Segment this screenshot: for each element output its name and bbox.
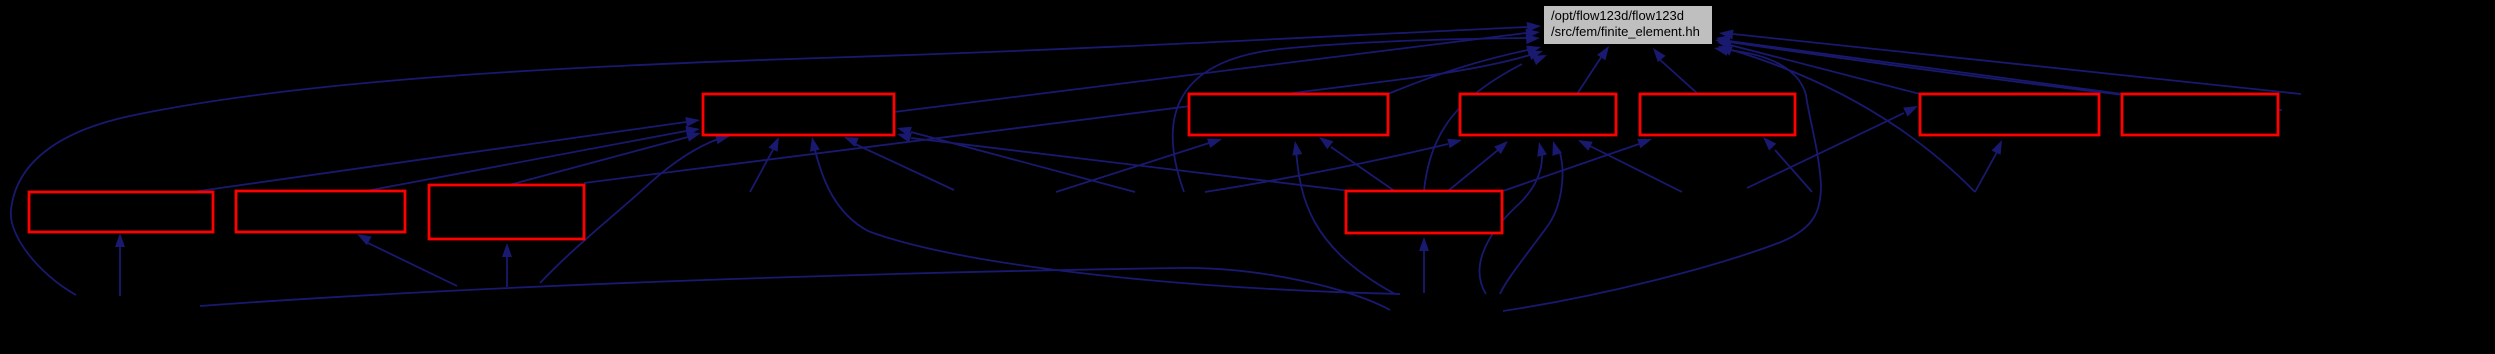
edge I to A <box>509 132 701 185</box>
svg-text:/opt/flow123d/flow123d: /opt/flow123d/flow123d <box>1551 8 1684 23</box>
edge hub3 curve to A <box>540 134 730 283</box>
edge bottomnode to C inner <box>1480 142 1548 294</box>
edge J to finite_element.hh <box>1424 55 1547 191</box>
edge B to finite_element.hh <box>1388 46 1541 94</box>
node B <box>1189 94 1388 135</box>
node fe_system.hh (A) <box>703 94 894 135</box>
edge J to C <box>1448 141 1508 191</box>
edge r3a to A <box>750 137 779 192</box>
edge J to A <box>897 133 1350 191</box>
node finite_element.hh (root) <box>1544 6 1712 44</box>
edge G to A <box>192 117 700 192</box>
edge bottom long line <box>200 268 1390 310</box>
edge node mid to finite_element.hh (s-curve) <box>1173 34 1540 192</box>
edge H to A <box>366 126 700 191</box>
edge r4 to E <box>1975 140 2002 192</box>
edge hidden box2 to finite_element.hh (over F) <box>1719 30 2301 95</box>
edge r3h to D <box>1763 137 1812 192</box>
edge I to finite_element.hh <box>584 51 1543 184</box>
node J <box>1346 191 1502 233</box>
node H <box>236 191 405 232</box>
edge C to finite_element.hh <box>1577 46 1609 94</box>
edge hub4 to J <box>1419 237 1429 293</box>
edge hub4 to A (long bottom curve) <box>810 137 1400 294</box>
node D <box>1640 94 1795 135</box>
node E <box>1920 94 2099 135</box>
edge hub3 to H <box>357 234 457 286</box>
edge r3j to E left edge <box>1747 106 1918 188</box>
edge r3d to B <box>1056 139 1222 193</box>
edge hidden box2 to finite_element.hh (behind F) <box>1715 37 2282 110</box>
edge D to finite_element.hh <box>1653 48 1698 94</box>
edge E to finite_element.hh <box>1717 40 1920 94</box>
edge hub4 to finite_element.hh (big swoosh around D) <box>1503 46 1821 311</box>
edge node r4 to finite_element.hh <box>1718 46 1975 192</box>
edge bottomnode to C outer <box>1500 141 1563 294</box>
edge J to B <box>1319 137 1396 192</box>
edge hub1 to finite_element.hh (left big arc) <box>11 22 1541 295</box>
edge hub2 to G <box>115 233 125 296</box>
node G <box>29 192 213 232</box>
edge J to D <box>1500 139 1652 192</box>
edge r3b to A <box>844 137 954 190</box>
edge F to finite_element.hh <box>1716 35 2122 94</box>
edge hub3b to I <box>502 243 512 287</box>
node F <box>2122 94 2278 135</box>
edge hub4 to B <box>1292 141 1395 294</box>
node C <box>1460 94 1616 135</box>
node I (two-line) <box>429 185 584 239</box>
svg-text:/src/fem/finite_element.hh: /src/fem/finite_element.hh <box>1551 24 1700 39</box>
edge r3e to C <box>1205 139 1462 192</box>
edge r3c to A <box>897 127 1135 192</box>
edge r3g to C <box>1578 140 1682 192</box>
edge fe_values.hh to finite_element.hh <box>894 29 1540 112</box>
